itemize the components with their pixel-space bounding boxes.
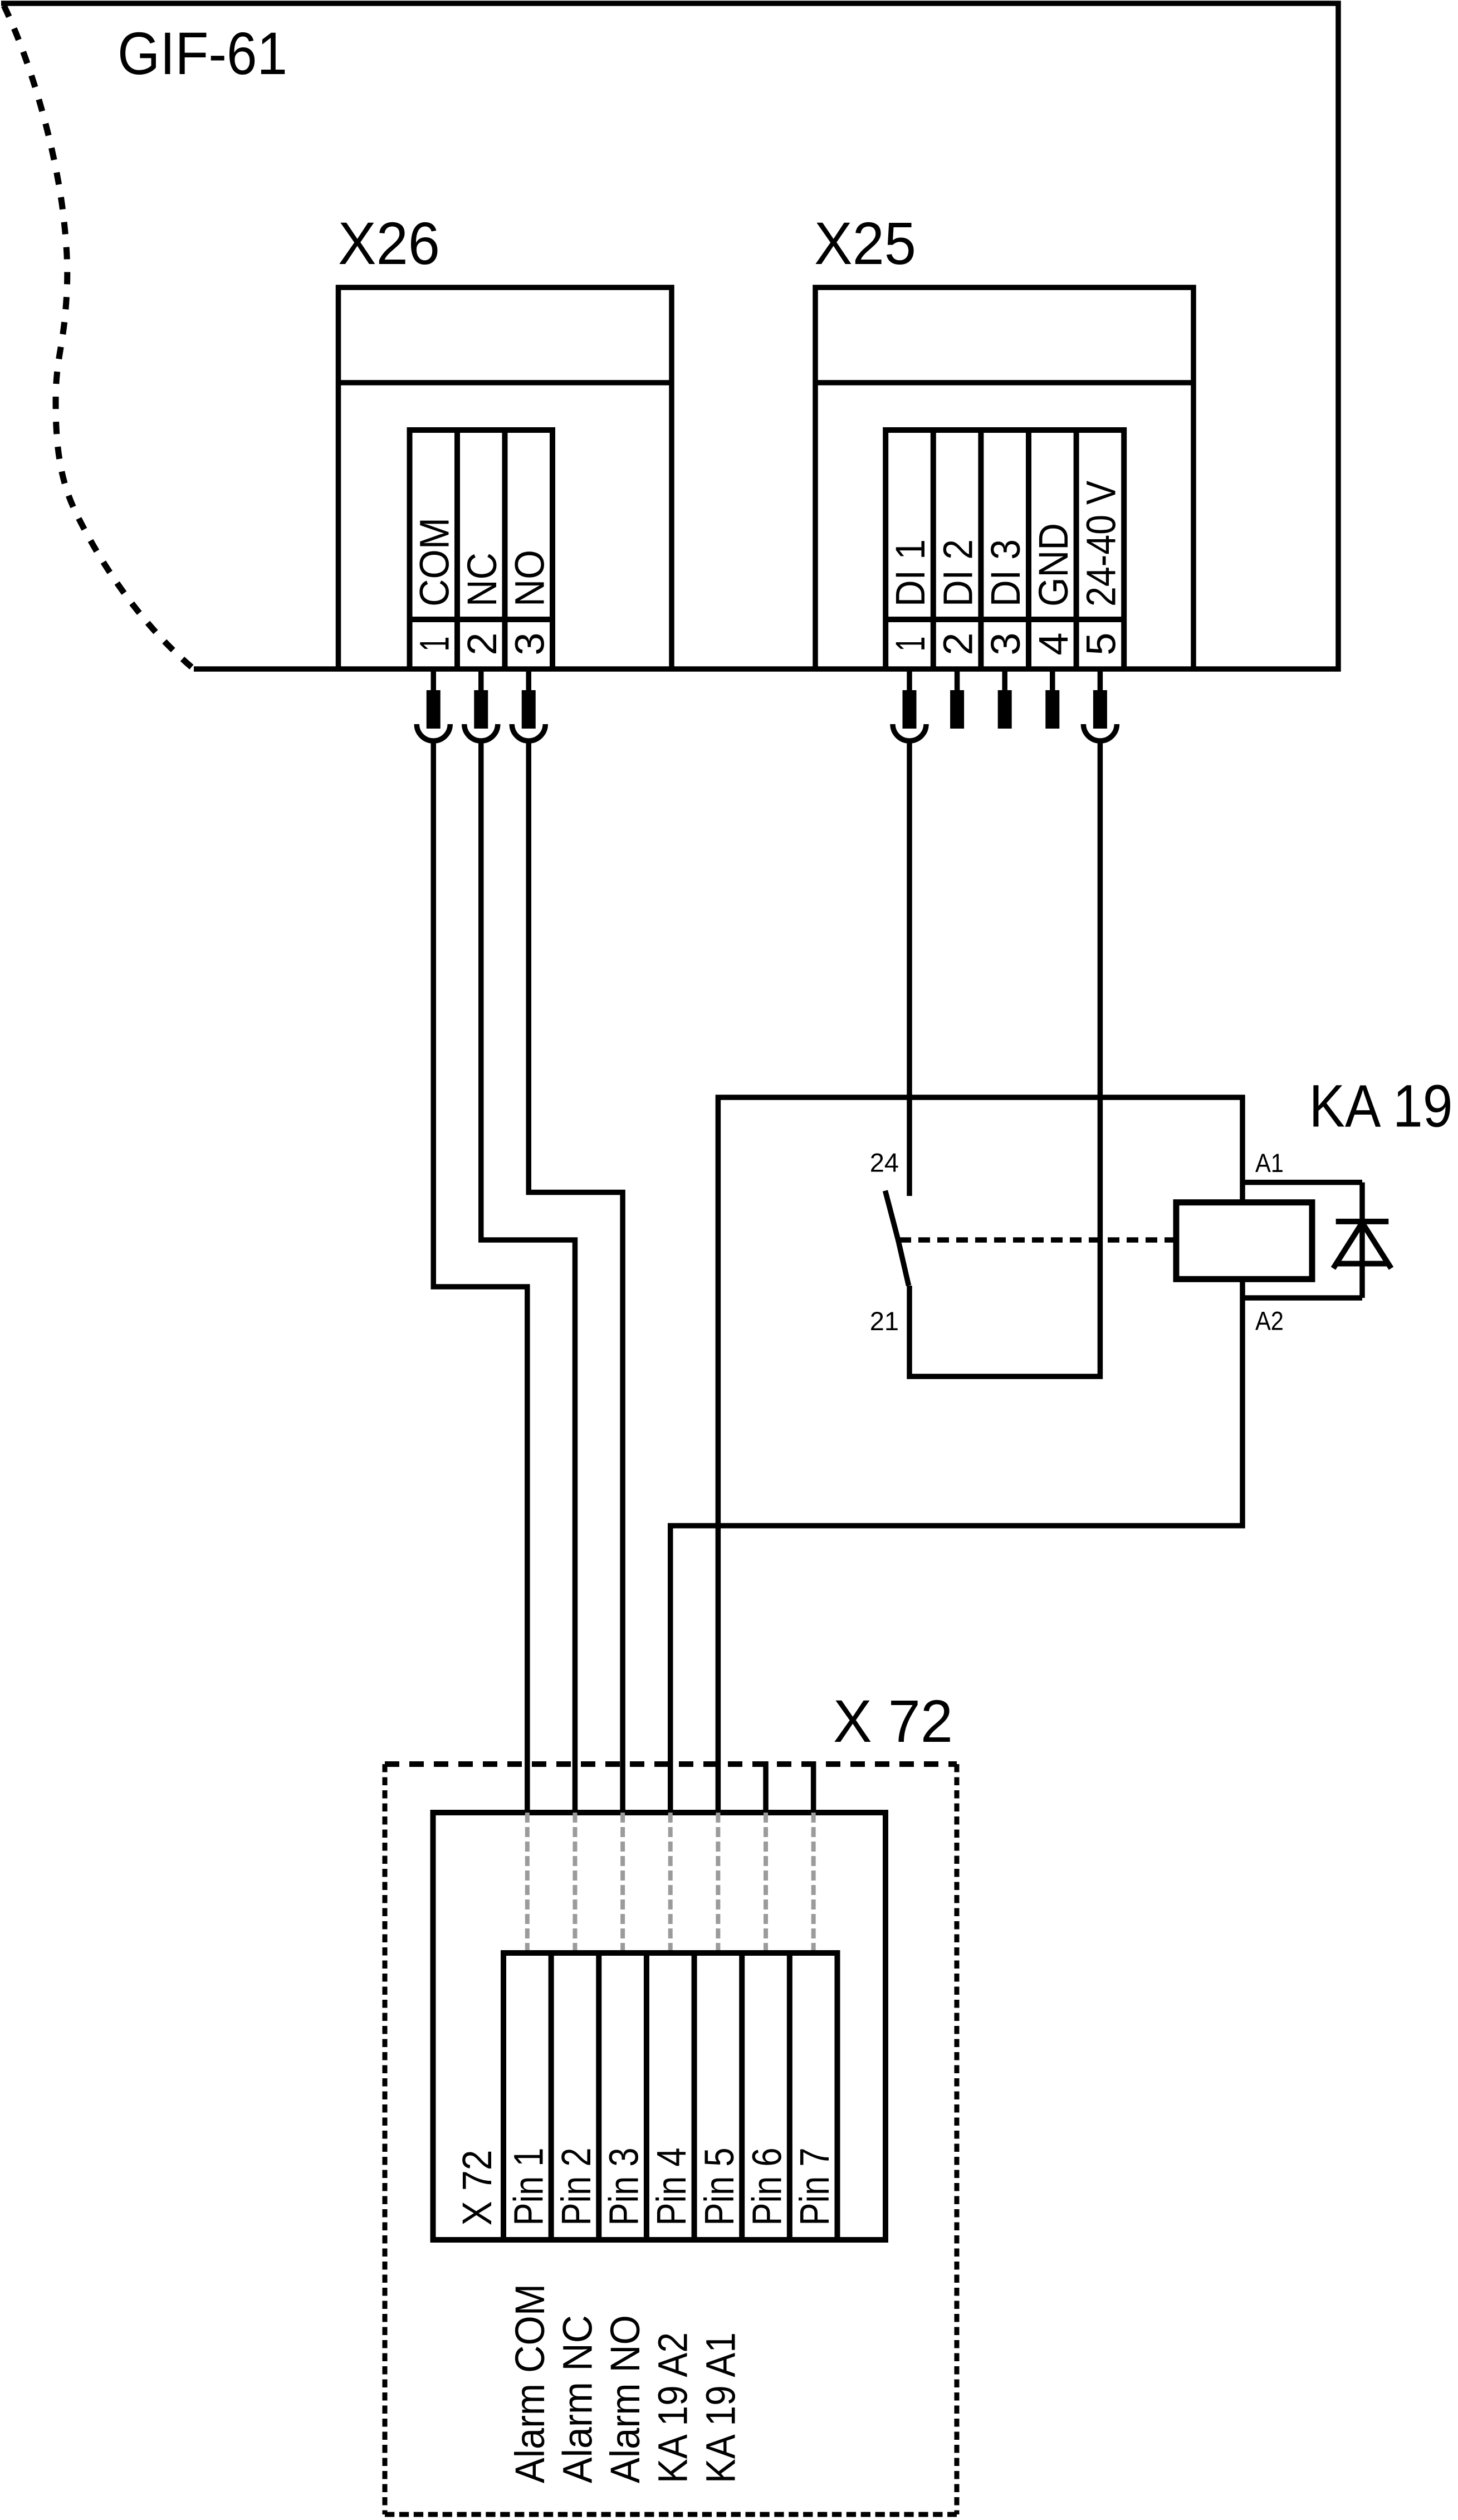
X72 terminal divider 3|4: [644, 1953, 649, 2240]
svg-text:NO: NO: [506, 550, 552, 607]
X25 terminal divider 4|5: [1074, 430, 1079, 669]
X25 pin 4 plug symbol: [1050, 669, 1055, 692]
diode branch vertical wire: [1359, 1183, 1365, 1298]
X72 pin 1 gray dashed lead: [525, 1813, 530, 1953]
svg-text:COM: COM: [411, 517, 457, 607]
svg-text:Alarm NO: Alarm NO: [602, 2315, 648, 2483]
connector X26 outer box: [339, 287, 672, 669]
svg-text:Alarm COM: Alarm COM: [507, 2284, 553, 2483]
svg-text:4: 4: [1030, 632, 1077, 655]
X72 terminal divider 6|7: [787, 1953, 792, 2240]
X26 pin 2 plug symbol: [478, 669, 484, 692]
wire X25-1 DI1 to relay contact 24: [907, 741, 912, 1196]
X72 pin 2 gray dashed lead: [573, 1813, 577, 1953]
svg-text:DI 2: DI 2: [935, 539, 981, 607]
svg-text:A2: A2: [1255, 1306, 1284, 1336]
enclosure GIF-61 outline (top, right, bottom edges): [1, 3, 1338, 669]
svg-text:A1: A1: [1255, 1148, 1284, 1178]
wire X26-1 COM to X72 Pin1: [433, 741, 527, 1813]
relay KA19 contact blade (24-21): [885, 1191, 909, 1286]
wire X25-5 24-40V down to contact 21 link: [909, 741, 1100, 1376]
enclosure GIF-61 dashed boundary curve: [4, 6, 194, 669]
X72 terminal divider 4|5: [692, 1953, 697, 2240]
X26 terminal divider 1|2: [454, 430, 460, 669]
svg-text:5: 5: [1078, 632, 1124, 655]
svg-text:GND: GND: [1030, 523, 1077, 607]
X25 number box line: [885, 617, 1124, 622]
svg-text:GIF-61: GIF-61: [118, 19, 287, 87]
X25 pin 2 plug symbol: [955, 669, 960, 692]
diode D1 triangle: [1333, 1223, 1362, 1268]
X72 pin 6 stub wire: [763, 1761, 769, 1813]
svg-text:X 72: X 72: [833, 1687, 953, 1755]
X26 pin 1 plug symbol: [431, 669, 437, 692]
X26 pin 3 plug symbol: [526, 669, 532, 692]
wire diode bottom to coil A2: [1242, 1295, 1362, 1301]
svg-text:Pin 2: Pin 2: [553, 2148, 599, 2226]
svg-text:X26: X26: [338, 209, 440, 277]
svg-text:3: 3: [982, 632, 1029, 655]
svg-text:X25: X25: [814, 209, 916, 277]
X72 terminal block outline: [503, 1953, 837, 2240]
connector X72 dashed boundary box top edge: [385, 1761, 957, 1767]
wire coil A1 to diode (top): [1242, 1180, 1362, 1185]
svg-text:KA 19 A1: KA 19 A1: [697, 2332, 743, 2483]
X25 terminal divider 1|2: [931, 430, 936, 669]
svg-text:24: 24: [870, 1148, 899, 1178]
X72 pin 6 gray dashed lead: [764, 1813, 768, 1953]
X25 pin 5 plug symbol: [1098, 669, 1103, 692]
X72 pin 7 stub wire: [811, 1761, 816, 1813]
svg-text:Pin 3: Pin 3: [601, 2148, 647, 2226]
wire KA19 A2 path (coil down, across, down to X72 Pin4): [671, 1279, 1242, 1813]
connector X26 inner horizontal line: [339, 380, 672, 385]
X25 terminal block outline: [885, 430, 1124, 669]
svg-text:2: 2: [459, 632, 505, 655]
X25 terminal divider 3|4: [1026, 430, 1031, 669]
svg-text:2: 2: [935, 632, 981, 655]
X72 pin 3 gray dashed lead: [620, 1813, 625, 1953]
svg-text:Pin 6: Pin 6: [744, 2148, 790, 2226]
svg-text:1: 1: [887, 637, 933, 652]
connector X25 outer box: [815, 287, 1193, 669]
svg-text:DI 3: DI 3: [982, 539, 1029, 607]
connector X72 dashed boundary box right edge: [955, 1764, 960, 2514]
X72 pin 4 gray dashed lead: [668, 1813, 673, 1953]
X25 pin 1 plug symbol: [907, 669, 912, 692]
X72 terminal divider 5|6: [739, 1953, 745, 2240]
connector X25 inner horizontal line: [815, 380, 1193, 385]
X26 terminal block outline: [410, 430, 553, 669]
svg-text:24-40 V: 24-40 V: [1078, 480, 1124, 607]
svg-text:1: 1: [411, 637, 457, 652]
svg-text:KA 19: KA 19: [1309, 1072, 1453, 1140]
svg-text:21: 21: [870, 1306, 899, 1336]
svg-text:Pin 7: Pin 7: [791, 2148, 838, 2226]
svg-text:Pin 4: Pin 4: [648, 2148, 694, 2226]
svg-text:DI 1: DI 1: [887, 539, 933, 607]
svg-text:X 72: X 72: [454, 2150, 500, 2226]
svg-text:Pin 1: Pin 1: [505, 2148, 551, 2226]
X26 number box line: [410, 617, 553, 622]
wire X26-3 NO to X72 Pin3: [529, 741, 623, 1813]
svg-text:KA 19 A2: KA 19 A2: [650, 2332, 696, 2483]
relay coil KA19: [1176, 1203, 1312, 1279]
X25 terminal divider 2|3: [978, 430, 984, 669]
X26 terminal divider 2|3: [502, 430, 508, 669]
X72 pin 5 gray dashed lead: [716, 1813, 720, 1953]
X72 terminal divider 1|2: [549, 1953, 554, 2240]
X72 terminal divider 2|3: [596, 1953, 601, 2240]
X25 pin 3 plug symbol: [1002, 669, 1007, 692]
svg-text:Pin 5: Pin 5: [696, 2148, 742, 2226]
svg-text:NC: NC: [459, 553, 505, 607]
X72 pin 7 gray dashed lead: [811, 1813, 816, 1953]
diode D1 cathode bar: [1336, 1219, 1389, 1224]
svg-text:Alarm NC: Alarm NC: [554, 2315, 600, 2483]
connector X72 dashed boundary box left edge: [383, 1764, 388, 2514]
relay KA19 mechanical link dashed line: [899, 1237, 1176, 1243]
wire X26-2 NC to X72 Pin2: [481, 741, 575, 1813]
connector X72 dashed boundary box bottom edge: [385, 2512, 957, 2517]
wire KA19 A1 path (X72 Pin5 up, across, down to coil): [718, 1097, 1242, 1813]
svg-text:3: 3: [506, 632, 552, 655]
X72 inner box: [433, 1813, 886, 2240]
